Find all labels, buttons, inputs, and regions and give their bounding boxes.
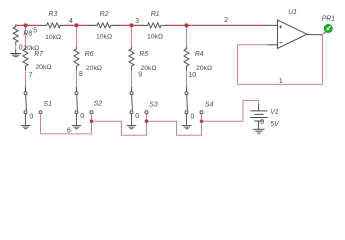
- node dot 4: [74, 23, 78, 27]
- svg-text:7: 7: [29, 72, 33, 79]
- ground below R8: [11, 50, 21, 57]
- wire S1 throw to bus net6: [40, 114, 42, 134]
- wire feedback net1: output down, across, up to inverting input: [238, 35, 323, 85]
- wire battery top red stub: [258, 101, 260, 104]
- svg-text:PR1: PR1: [322, 15, 336, 22]
- svg-text:2: 2: [224, 17, 228, 24]
- battery V1: [250, 104, 267, 133]
- op-amp U1 inverting input mark -: [279, 42, 282, 44]
- svg-text:0: 0: [80, 113, 84, 120]
- resistor R6: [74, 47, 79, 70]
- wire node2 segment R1 to op-amp: [167, 24, 268, 26]
- probe PR1: [323, 31, 326, 34]
- resistor R5: [129, 47, 134, 70]
- resistor R3: [41, 23, 66, 28]
- ground at S4 net 0: [182, 114, 192, 129]
- wire top bus net5 segment R8 to R3: [16, 24, 42, 26]
- svg-text:0: 0: [135, 113, 139, 120]
- bus dot S4: [200, 119, 204, 123]
- wire R8 to ground net0: [15, 45, 17, 51]
- svg-text:R2: R2: [100, 11, 109, 18]
- svg-text:S2: S2: [94, 100, 103, 107]
- resistor R1: [142, 23, 166, 28]
- svg-text:4: 4: [69, 18, 73, 25]
- svg-text:6: 6: [67, 128, 71, 135]
- svg-text:R7: R7: [34, 51, 44, 58]
- svg-text:3: 3: [135, 18, 139, 25]
- wire S4 throw stub: [201, 114, 203, 121]
- op-amp U1 non-inverting input mark +: [279, 25, 282, 28]
- svg-text:0: 0: [191, 113, 195, 120]
- svg-text:0: 0: [260, 119, 264, 126]
- svg-text:5V: 5V: [270, 121, 280, 128]
- op-amp U1: [268, 20, 321, 48]
- svg-text:R3: R3: [49, 11, 58, 18]
- svg-text:R4: R4: [195, 51, 204, 58]
- resistor R7: [23, 47, 28, 70]
- svg-text:20kΩ: 20kΩ: [196, 65, 212, 72]
- svg-text:5: 5: [33, 27, 37, 34]
- svg-text:0: 0: [19, 45, 23, 52]
- switch S4: [185, 92, 203, 114]
- wire S3 throw stub: [146, 114, 148, 121]
- bus dot S2: [90, 119, 94, 123]
- svg-text:10kΩ: 10kΩ: [147, 34, 163, 41]
- svg-text:R8: R8: [23, 30, 32, 37]
- wire S2 throw stub: [91, 114, 93, 121]
- svg-text:S3: S3: [149, 102, 158, 109]
- svg-text:U1: U1: [288, 9, 297, 16]
- wire R6 to S2 net8: [76, 71, 78, 88]
- wire R5 to S3 net9: [131, 71, 133, 88]
- svg-text:20kΩ: 20kΩ: [35, 64, 51, 71]
- wire output red segment: [320, 34, 323, 36]
- svg-text:R1: R1: [151, 11, 160, 18]
- ground at S2 net 0: [72, 114, 82, 129]
- svg-text:1: 1: [279, 78, 283, 85]
- wire R4 to S4 net10: [186, 71, 188, 88]
- svg-text:9: 9: [138, 71, 142, 78]
- resistor R4: [184, 47, 189, 70]
- switch S2: [75, 92, 93, 114]
- svg-text:10kΩ: 10kΩ: [96, 34, 112, 41]
- svg-text:10kΩ: 10kΩ: [45, 34, 61, 41]
- resistor R2: [92, 23, 116, 28]
- svg-text:R5: R5: [139, 51, 148, 58]
- wire node3 segment R2 to R1: [116, 24, 142, 26]
- node dot 3: [129, 23, 133, 27]
- wire column drop R6: [76, 25, 78, 47]
- svg-text:8: 8: [79, 71, 83, 78]
- ground at S3 net 0: [127, 114, 137, 129]
- svg-text:S4: S4: [205, 102, 214, 109]
- svg-text:V1: V1: [270, 109, 279, 116]
- svg-text:10: 10: [188, 72, 196, 79]
- svg-text:20kΩ: 20kΩ: [86, 65, 102, 72]
- wire node4 segment R3 to R2: [66, 24, 92, 26]
- ground at S1 net 0: [21, 114, 31, 129]
- wire column drop R4: [186, 25, 188, 47]
- switch S1: [24, 92, 42, 114]
- svg-text:20kΩ: 20kΩ: [141, 65, 157, 72]
- wire column drop R5: [131, 25, 133, 47]
- wire bottom bus net 6: [41, 101, 259, 136]
- svg-text:S1: S1: [43, 101, 52, 108]
- node dot 25.7: [23, 23, 27, 27]
- svg-text:0: 0: [29, 113, 33, 120]
- node dot 2: [184, 23, 188, 27]
- wire R7 to S1 net7: [25, 71, 27, 88]
- bus dot S3: [145, 119, 149, 123]
- wire junction node to R7 top: [25, 25, 27, 47]
- resistor R8: [13, 25, 18, 44]
- switch S3: [130, 92, 148, 114]
- svg-text:R6: R6: [85, 51, 94, 58]
